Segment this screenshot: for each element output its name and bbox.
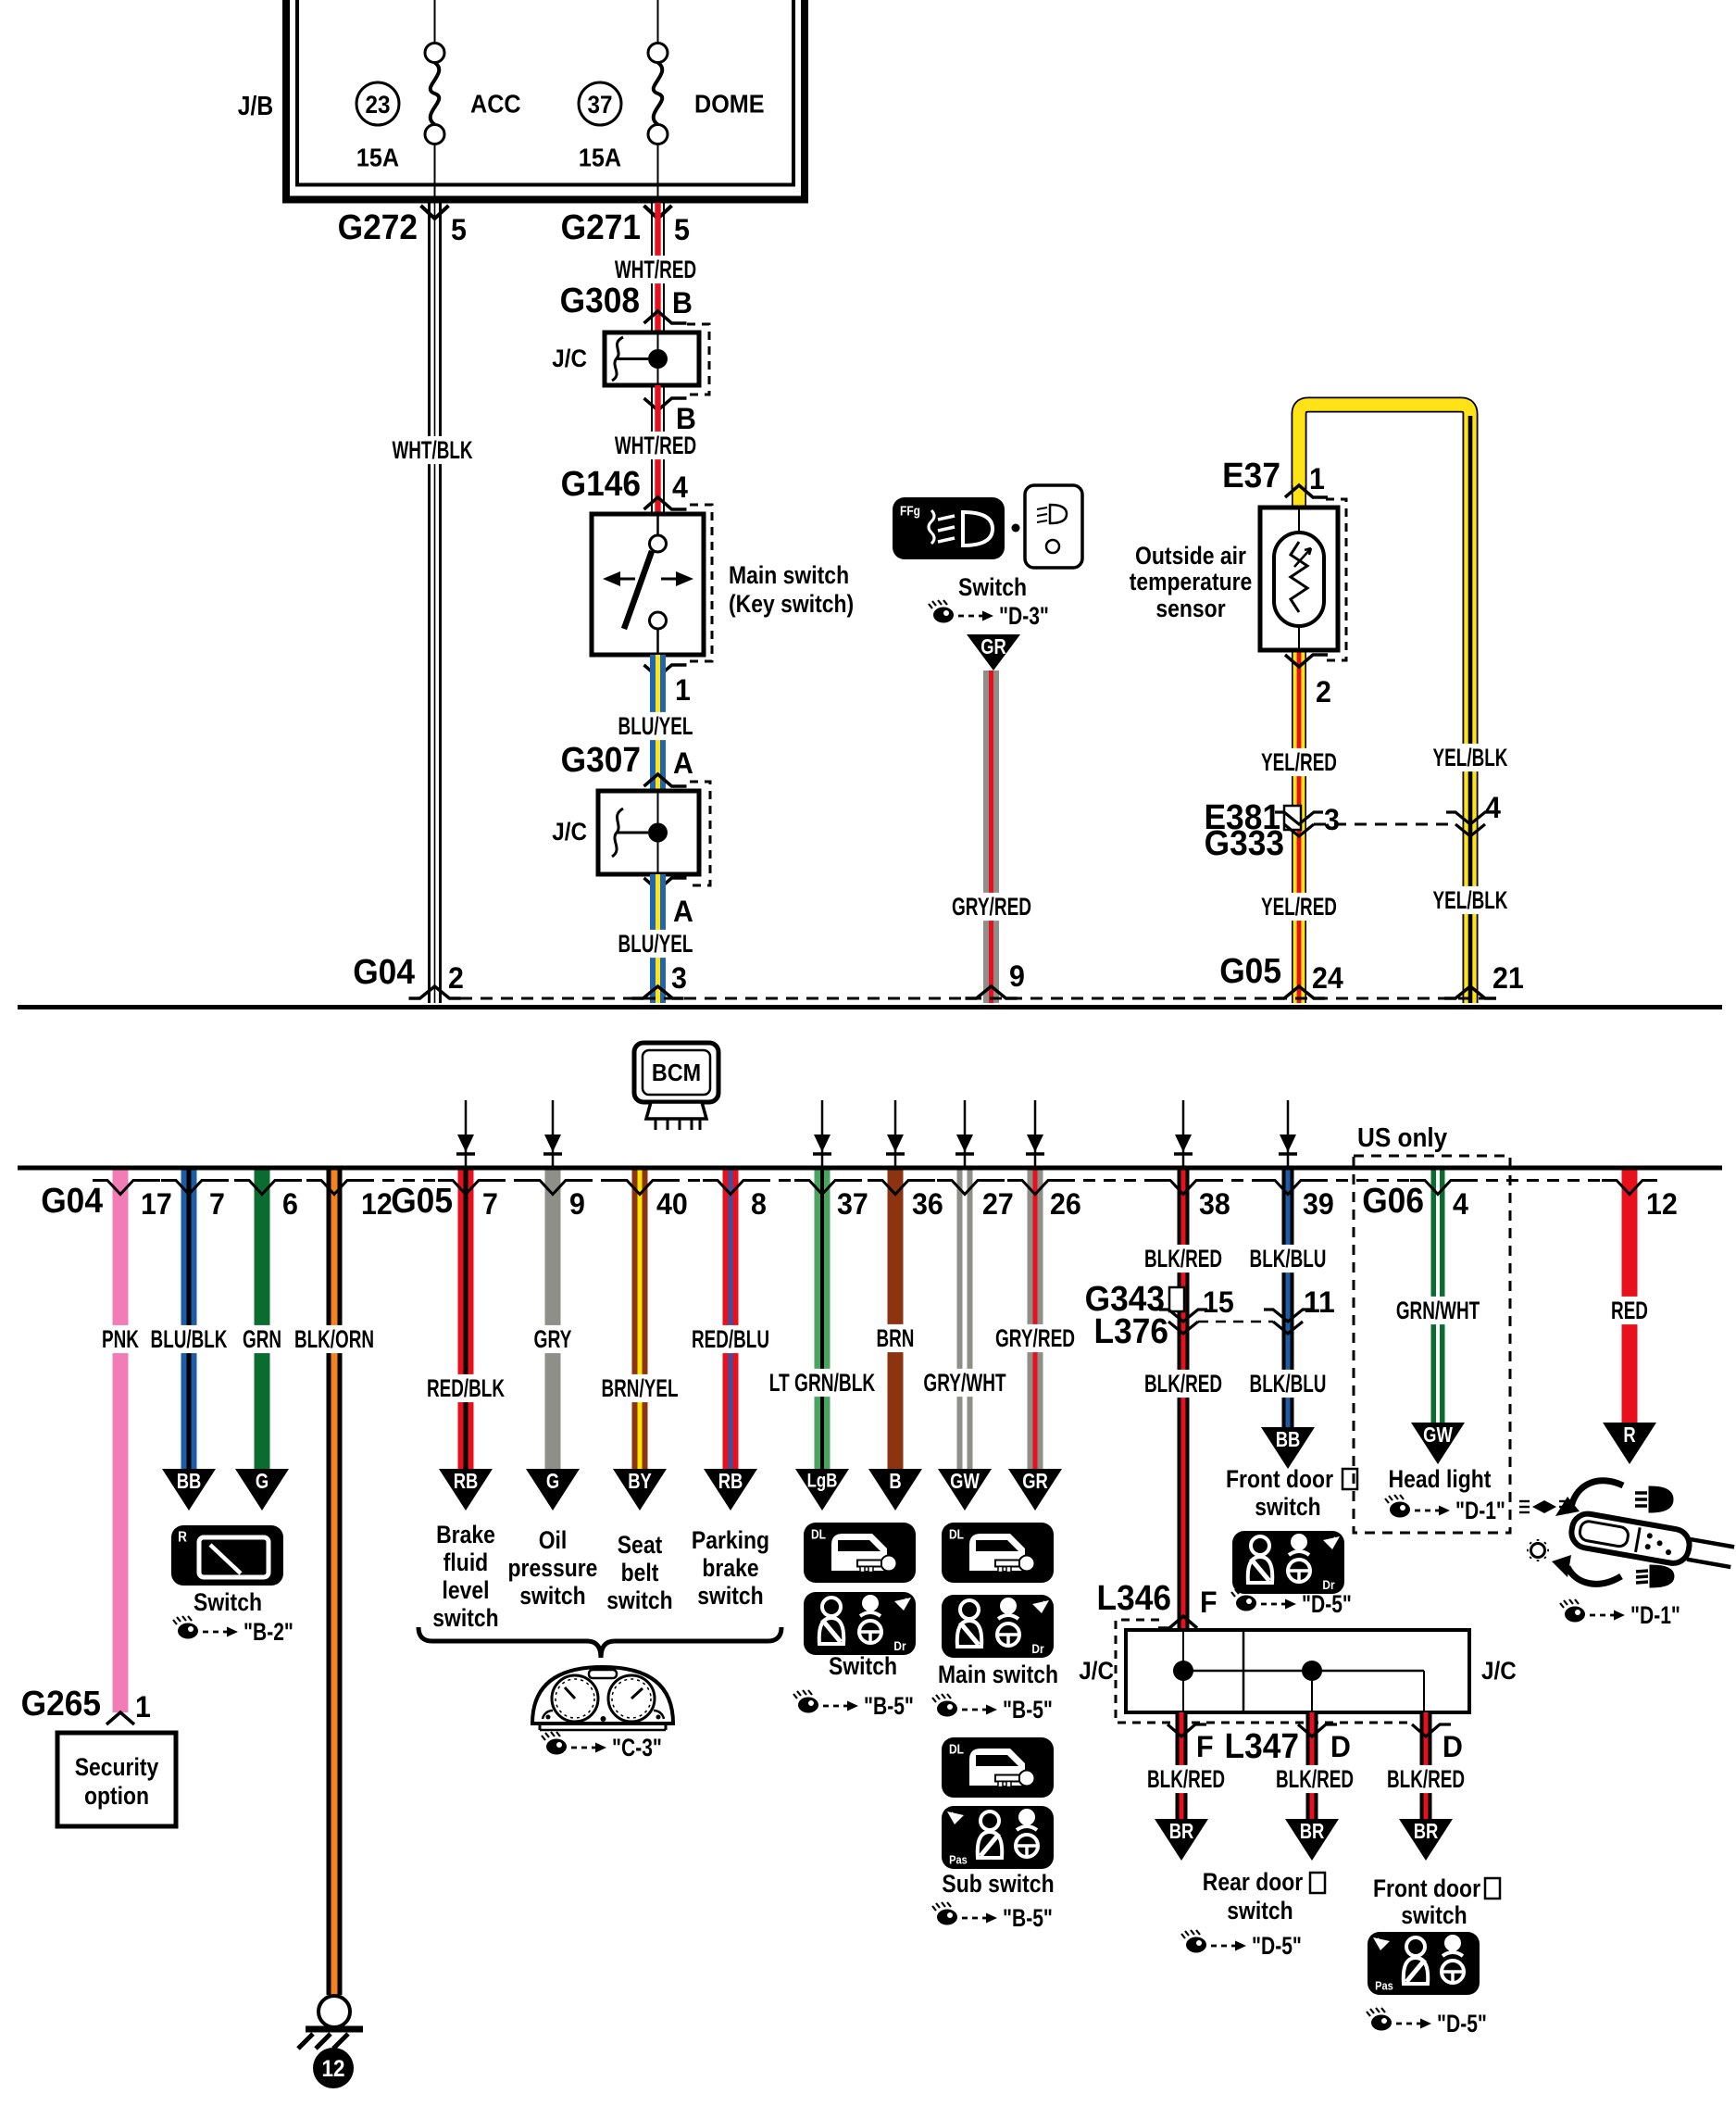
svg-text:40: 40: [656, 1187, 688, 1221]
svg-text:17: 17: [141, 1187, 172, 1221]
svg-text:G308: G308: [560, 282, 640, 320]
svg-text:GRY/WHT: GRY/WHT: [923, 1369, 1006, 1397]
svg-text:GW: GW: [1423, 1423, 1453, 1447]
svg-text:1: 1: [1309, 462, 1325, 495]
svg-text:"D-1": "D-1": [1630, 1601, 1680, 1629]
svg-text:BLU/YEL: BLU/YEL: [618, 712, 693, 740]
svg-text:Oil: Oil: [539, 1526, 568, 1554]
svg-text:J/C: J/C: [552, 345, 587, 372]
svg-text:24: 24: [1312, 961, 1343, 995]
svg-text:BY: BY: [628, 1469, 652, 1493]
svg-text:Front door: Front door: [1226, 1465, 1333, 1493]
svg-text:Switch: Switch: [194, 1588, 262, 1616]
svg-text:fluid: fluid: [443, 1548, 488, 1576]
svg-text:38: 38: [1199, 1187, 1230, 1221]
svg-text:D: D: [1443, 1730, 1463, 1763]
svg-text:15A: 15A: [579, 144, 621, 172]
svg-text:G272: G272: [338, 208, 418, 247]
svg-text:G146: G146: [561, 465, 641, 504]
svg-text:2: 2: [1316, 675, 1331, 708]
svg-text:level: level: [443, 1576, 490, 1604]
svg-text:Rear door: Rear door: [1203, 1868, 1304, 1896]
svg-text:BR: BR: [1169, 1819, 1194, 1843]
svg-text:15A: 15A: [356, 144, 399, 172]
svg-text:J/C: J/C: [1079, 1657, 1114, 1685]
svg-text:F: F: [1196, 1730, 1214, 1763]
svg-text:8: 8: [751, 1187, 767, 1221]
svg-text:J/B: J/B: [238, 92, 273, 121]
svg-text:BRN/YEL: BRN/YEL: [602, 1374, 679, 1402]
svg-text:1: 1: [675, 673, 691, 707]
svg-text:switch: switch: [432, 1604, 498, 1632]
svg-text:BLU/BLK: BLU/BLK: [151, 1325, 228, 1353]
svg-text:switch: switch: [1255, 1493, 1320, 1521]
svg-text:PNK: PNK: [102, 1325, 139, 1353]
svg-text:"B-2": "B-2": [244, 1618, 293, 1646]
svg-text:21: 21: [1492, 961, 1524, 995]
svg-text:YEL/BLK: YEL/BLK: [1433, 886, 1508, 914]
svg-text:Security: Security: [75, 1753, 159, 1781]
svg-text:G04: G04: [41, 1182, 103, 1221]
svg-text:Dr: Dr: [1031, 1641, 1044, 1656]
svg-text:RED/BLK: RED/BLK: [427, 1374, 505, 1402]
svg-text:12: 12: [361, 1187, 393, 1221]
svg-text:Outside air: Outside air: [1135, 542, 1246, 570]
svg-text:RB: RB: [454, 1469, 479, 1493]
svg-text:YEL/RED: YEL/RED: [1261, 748, 1337, 776]
svg-text:BRN: BRN: [877, 1324, 915, 1352]
svg-text:Brake: Brake: [436, 1521, 495, 1548]
svg-text:L347: L347: [1225, 1727, 1300, 1766]
svg-text:L376: L376: [1094, 1312, 1169, 1351]
svg-text:E37: E37: [1222, 457, 1280, 495]
svg-text:Sub switch: Sub switch: [942, 1870, 1054, 1898]
svg-text:"D-5": "D-5": [1302, 1590, 1352, 1618]
svg-text:4: 4: [1485, 791, 1501, 824]
svg-text:D: D: [1330, 1730, 1351, 1763]
svg-text:LT GRN/BLK: LT GRN/BLK: [769, 1369, 876, 1397]
svg-text:DL: DL: [949, 1527, 964, 1543]
svg-text:GW: GW: [950, 1469, 980, 1493]
svg-text:sensor: sensor: [1155, 595, 1226, 622]
svg-text:pressure: pressure: [508, 1554, 598, 1582]
svg-text:BLK/BLU: BLK/BLU: [1250, 1370, 1327, 1398]
svg-text:BLK/RED: BLK/RED: [1147, 1765, 1225, 1793]
svg-text:belt: belt: [621, 1559, 659, 1586]
svg-text:G307: G307: [561, 741, 641, 780]
svg-text:BR: BR: [1300, 1819, 1325, 1843]
svg-text:"C-3": "C-3": [612, 1734, 662, 1761]
svg-text:A: A: [673, 746, 693, 780]
svg-text:switch: switch: [1401, 1901, 1467, 1929]
svg-text:switch: switch: [606, 1586, 672, 1614]
svg-text:DOME: DOME: [694, 90, 765, 119]
svg-text:9: 9: [1009, 959, 1025, 993]
svg-text:R: R: [1623, 1423, 1636, 1447]
svg-text:B: B: [676, 402, 696, 435]
svg-text:BLK/RED: BLK/RED: [1276, 1765, 1354, 1793]
svg-text:G271: G271: [561, 208, 641, 247]
svg-text:WHT/RED: WHT/RED: [615, 432, 696, 459]
svg-text:"B-5": "B-5": [1003, 1904, 1053, 1932]
svg-text:RED: RED: [1611, 1297, 1648, 1324]
svg-text:3: 3: [1324, 803, 1340, 836]
svg-text:12: 12: [1646, 1187, 1678, 1221]
svg-text:LgB: LgB: [807, 1471, 838, 1492]
svg-text:J/C: J/C: [552, 818, 587, 846]
svg-text:brake: brake: [702, 1554, 758, 1582]
svg-text:G265: G265: [21, 1685, 101, 1724]
svg-text:12: 12: [322, 2056, 345, 2082]
svg-text:RED/BLU: RED/BLU: [692, 1325, 769, 1353]
svg-text:G05: G05: [391, 1182, 453, 1221]
svg-text:DL: DL: [949, 1742, 964, 1758]
svg-text:WHT/BLK: WHT/BLK: [392, 436, 472, 464]
svg-text:Pas: Pas: [949, 1853, 968, 1867]
svg-text:"D-3": "D-3": [999, 602, 1049, 630]
svg-text:switch: switch: [519, 1582, 585, 1610]
svg-text:Front door: Front door: [1373, 1874, 1480, 1902]
svg-text:6: 6: [282, 1187, 298, 1221]
svg-text:23: 23: [366, 91, 391, 119]
svg-text:4: 4: [1453, 1187, 1468, 1221]
svg-text:BLK/RED: BLK/RED: [1387, 1765, 1465, 1793]
svg-text:US only: US only: [1357, 1123, 1447, 1153]
svg-text:36: 36: [912, 1187, 943, 1221]
svg-text:BR: BR: [1414, 1819, 1439, 1843]
svg-text:GRN/WHT: GRN/WHT: [1396, 1297, 1480, 1324]
svg-text:FFg: FFg: [900, 504, 920, 520]
svg-text:(Key switch): (Key switch): [729, 590, 854, 618]
svg-text:4: 4: [672, 470, 688, 504]
svg-text:7: 7: [482, 1187, 498, 1221]
svg-text:YEL/RED: YEL/RED: [1261, 893, 1337, 921]
svg-text:DL: DL: [811, 1527, 826, 1543]
svg-text:G: G: [546, 1469, 559, 1493]
svg-text:G05: G05: [1219, 952, 1281, 991]
svg-text:26: 26: [1050, 1187, 1081, 1221]
svg-text:WHT/RED: WHT/RED: [615, 256, 696, 283]
svg-text:L346: L346: [1097, 1579, 1172, 1618]
svg-text:GR: GR: [980, 634, 1006, 658]
svg-text:"D-5": "D-5": [1252, 1932, 1302, 1960]
svg-text:BLK/ORN: BLK/ORN: [294, 1325, 374, 1353]
svg-text:BCM: BCM: [652, 1059, 701, 1086]
svg-text:option: option: [84, 1782, 149, 1810]
svg-text:2: 2: [448, 961, 464, 995]
svg-text:GRN: GRN: [243, 1325, 281, 1353]
svg-text:Parking: Parking: [692, 1526, 769, 1554]
svg-text:BLK/RED: BLK/RED: [1144, 1245, 1222, 1272]
svg-text:11: 11: [1304, 1285, 1335, 1319]
svg-text:"D-1": "D-1": [1455, 1497, 1505, 1524]
svg-text:39: 39: [1303, 1187, 1334, 1221]
svg-text:15: 15: [1203, 1285, 1234, 1319]
svg-text:RB: RB: [718, 1469, 743, 1493]
svg-text:B: B: [672, 286, 693, 320]
svg-text:R: R: [178, 1530, 187, 1546]
svg-text:Dr: Dr: [893, 1638, 906, 1653]
svg-text:BLK/RED: BLK/RED: [1144, 1370, 1222, 1398]
svg-text:27: 27: [982, 1187, 1014, 1221]
svg-text:BB: BB: [1276, 1427, 1301, 1451]
svg-text:"D-5": "D-5": [1437, 2010, 1487, 2037]
svg-text:"B-5": "B-5": [1003, 1696, 1053, 1724]
svg-text:B: B: [889, 1469, 901, 1493]
svg-text:BLU/YEL: BLU/YEL: [618, 930, 693, 958]
svg-text:Switch: Switch: [829, 1652, 897, 1680]
svg-text:Seat: Seat: [618, 1531, 663, 1559]
svg-text:Head light: Head light: [1389, 1465, 1492, 1493]
svg-text:7: 7: [209, 1187, 225, 1221]
svg-text:ACC: ACC: [470, 90, 521, 119]
svg-text:A: A: [673, 895, 693, 928]
svg-text:GRY/RED: GRY/RED: [995, 1324, 1075, 1352]
svg-text:G04: G04: [353, 953, 415, 992]
svg-text:Pas: Pas: [1375, 1979, 1393, 1993]
svg-text:BB: BB: [177, 1469, 202, 1493]
svg-text:GRY: GRY: [534, 1325, 572, 1353]
svg-text:temperature: temperature: [1130, 568, 1253, 595]
svg-text:9: 9: [569, 1187, 585, 1221]
svg-text:1: 1: [135, 1690, 151, 1724]
svg-text:5: 5: [451, 213, 467, 246]
svg-text:switch: switch: [697, 1582, 763, 1610]
svg-text:"B-5": "B-5": [864, 1692, 914, 1720]
svg-text:YEL/BLK: YEL/BLK: [1433, 744, 1508, 771]
svg-text:5: 5: [674, 213, 690, 246]
svg-text:3: 3: [671, 961, 687, 995]
svg-text:BLK/BLU: BLK/BLU: [1250, 1245, 1327, 1272]
svg-text:G06: G06: [1362, 1182, 1424, 1221]
svg-text:37: 37: [837, 1187, 868, 1221]
svg-text:Main switch: Main switch: [938, 1661, 1058, 1688]
svg-text:F: F: [1200, 1586, 1218, 1619]
svg-text:J/C: J/C: [1481, 1657, 1517, 1685]
svg-text:G: G: [256, 1469, 269, 1493]
svg-text:GR: GR: [1022, 1469, 1048, 1493]
svg-text:GRY/RED: GRY/RED: [952, 893, 1031, 921]
svg-text:Main switch: Main switch: [729, 561, 849, 589]
svg-text:37: 37: [588, 91, 613, 119]
svg-text:switch: switch: [1227, 1897, 1293, 1924]
svg-text:Switch: Switch: [958, 573, 1027, 601]
svg-text:G333: G333: [1205, 824, 1284, 863]
